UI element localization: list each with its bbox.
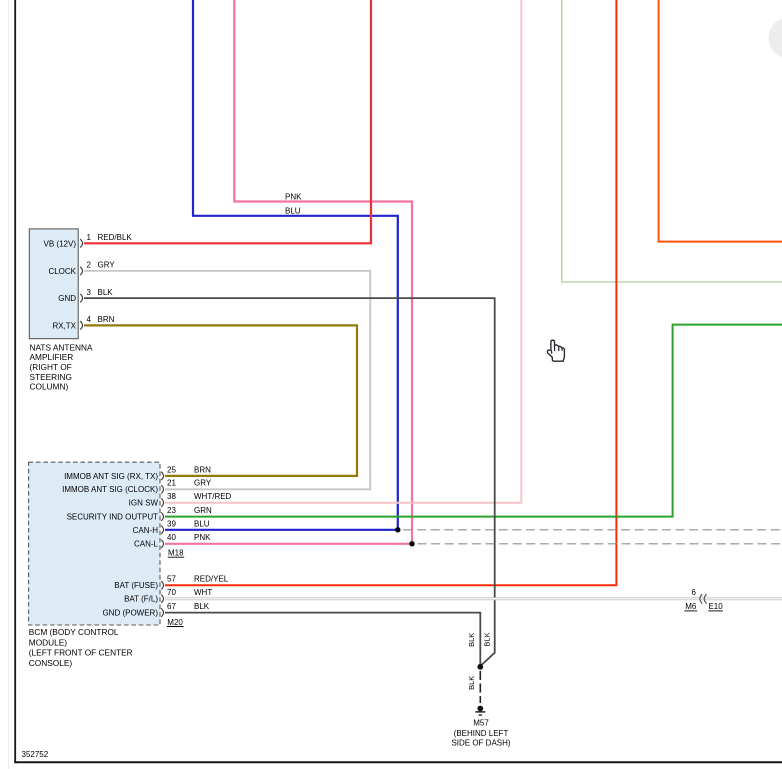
junction CAN-H [395, 527, 400, 532]
inline connector M6/E10 arcs [700, 594, 707, 603]
svg-text:STEERING: STEERING [30, 372, 72, 382]
node M20 [167, 618, 184, 627]
svg-text:WHT/RED: WHT/RED [194, 492, 232, 501]
svg-text:57: 57 [167, 575, 176, 584]
wire RED/YEL vertical [165, 0, 616, 585]
NATS pin 2 connector [80, 267, 82, 275]
svg-text:RED/BLK: RED/BLK [98, 233, 133, 242]
junction ground splice [477, 664, 483, 670]
svg-text:BRN: BRN [194, 465, 211, 474]
BCM pin 67 connector [161, 608, 163, 616]
wire PNK CAN-L row [165, 543, 412, 545]
dashed lead to ground M57 [479, 671, 481, 703]
svg-text:NATS ANTENNA: NATS ANTENNA [30, 342, 93, 352]
BCM pin 23 connector [161, 512, 163, 520]
svg-text:RED/YEL: RED/YEL [194, 575, 229, 584]
svg-text:GRY: GRY [98, 261, 116, 270]
BCM pin labels [62, 472, 158, 618]
svg-text:1: 1 [87, 233, 92, 242]
svg-text:4: 4 [87, 315, 92, 324]
BCM pin 57 connector [161, 581, 163, 589]
mouse cursor hand [547, 340, 564, 361]
svg-text:38: 38 [167, 492, 176, 501]
wire BLK from NATS GND [84, 298, 495, 665]
svg-text:M57: M57 [473, 719, 489, 728]
svg-text:BLK: BLK [467, 676, 476, 690]
BCM pin 38 connector [161, 499, 163, 507]
svg-text:IMMOB ANT SIG (RX, TX): IMMOB ANT SIG (RX, TX) [64, 472, 158, 481]
svg-text:BAT (FUSE): BAT (FUSE) [114, 581, 158, 590]
page number 352752 [22, 750, 49, 759]
connector pin 6 label [691, 588, 696, 597]
svg-text:2: 2 [87, 261, 92, 270]
svg-text:SIDE OF DASH): SIDE OF DASH) [451, 739, 510, 748]
NATS pin labels [44, 239, 77, 330]
wire BLU vertical/horizontal from top to CAN-H junction [193, 0, 398, 530]
node M18 [168, 549, 185, 558]
wire GRN security indicator [165, 325, 782, 517]
svg-text:BLK: BLK [467, 633, 476, 647]
wire ORANGE [659, 0, 782, 242]
BCM pin 70 connector [161, 595, 163, 603]
svg-text:M20: M20 [167, 618, 183, 627]
label BLK rotated lower [467, 676, 476, 690]
frame bottom border [14, 761, 782, 763]
svg-text:39: 39 [167, 519, 176, 528]
svg-text:SECURITY IND OUTPUT: SECURITY IND OUTPUT [67, 513, 159, 522]
svg-text:CONSOLE): CONSOLE) [29, 658, 73, 668]
svg-text:GRN: GRN [194, 506, 212, 515]
svg-text:BLK: BLK [98, 288, 114, 297]
svg-text:(BEHIND LEFT: (BEHIND LEFT [454, 729, 509, 738]
svg-text:BLU: BLU [194, 519, 210, 528]
svg-text:CAN-L: CAN-L [134, 540, 159, 549]
svg-text:E10: E10 [708, 602, 723, 611]
svg-text:(LEFT FRONT OF CENTER: (LEFT FRONT OF CENTER [29, 648, 133, 658]
BCM pin 39 connector [161, 526, 163, 534]
NATS caption [30, 342, 93, 391]
BCM pin 40 connector [161, 540, 163, 548]
svg-text:WHT: WHT [194, 588, 212, 597]
label BLK rotated left [467, 633, 476, 647]
BCM pin numbers [167, 465, 176, 611]
wire WHT row with connector [165, 597, 782, 600]
dashed CAN-H bus line [404, 529, 782, 531]
NATS box [29, 229, 78, 339]
wire BLU CAN-H row [165, 529, 398, 531]
connector E10 label [708, 602, 723, 611]
wire BLK from BCM GND(POWER) [165, 613, 480, 667]
svg-text:352752: 352752 [22, 750, 49, 759]
svg-text:BAT (F/L): BAT (F/L) [124, 595, 158, 604]
connector M6 label [684, 602, 697, 611]
wire RED/BLK vertical to top [84, 0, 371, 243]
svg-text:BLK: BLK [194, 602, 210, 611]
BCM pin 25 connector [161, 472, 163, 480]
svg-text:CAN-H: CAN-H [133, 526, 159, 535]
svg-text:GRY: GRY [194, 479, 212, 488]
BCM wire color labels [194, 465, 232, 611]
frame left border [14, 0, 16, 763]
svg-text:CLOCK: CLOCK [48, 267, 76, 276]
wire GRY clock [84, 271, 370, 489]
faint window edge line [8, 0, 10, 769]
svg-text:M18: M18 [168, 549, 184, 558]
NATS pin 3 connector [80, 294, 82, 302]
svg-text:M6: M6 [685, 602, 697, 611]
BCM caption [29, 627, 133, 668]
BCM pin 21 connector [161, 485, 163, 493]
svg-text:PNK: PNK [194, 533, 211, 542]
svg-text:MODULE): MODULE) [29, 637, 67, 647]
svg-text:AMPLIFIER: AMPLIFIER [30, 352, 74, 362]
svg-text:RX,TX: RX,TX [52, 321, 76, 330]
svg-text:COLUMN): COLUMN) [30, 382, 69, 392]
wire LT GRN [562, 0, 782, 282]
svg-text:BLU: BLU [285, 206, 301, 215]
svg-text:VB (12V): VB (12V) [44, 239, 77, 248]
label PNK [285, 193, 302, 202]
NATS pin 1 connector [80, 239, 82, 247]
ground M57 caption [451, 719, 510, 748]
wire PNK from top to CAN-L junction [234, 0, 412, 544]
svg-text:25: 25 [167, 465, 176, 474]
label BLK rotated right [483, 632, 492, 646]
svg-text:PNK: PNK [285, 193, 302, 202]
svg-text:23: 23 [167, 506, 176, 515]
wire BRN rx tx [84, 325, 357, 476]
svg-text:BLK: BLK [483, 632, 492, 646]
svg-text:GND: GND [58, 294, 76, 303]
svg-text:67: 67 [167, 602, 176, 611]
svg-text:BCM (BODY CONTROL: BCM (BODY CONTROL [29, 627, 119, 637]
scroll knob circle top right [769, 18, 782, 59]
wire WHT/RED vertical light pink [165, 0, 521, 503]
NATS pin numbers [87, 233, 92, 324]
svg-text:BRN: BRN [98, 315, 115, 324]
svg-text:40: 40 [167, 533, 176, 542]
svg-text:IGN SW: IGN SW [129, 499, 159, 508]
NATS pin 4 connector [80, 321, 82, 329]
svg-text:21: 21 [167, 479, 176, 488]
svg-text:6: 6 [691, 588, 696, 597]
NATS wire color labels [98, 233, 133, 324]
svg-text:3: 3 [87, 288, 92, 297]
BCM box dashed [29, 462, 160, 625]
svg-text:IMMOB ANT SIG (CLOCK): IMMOB ANT SIG (CLOCK) [62, 485, 158, 494]
svg-text:(RIGHT OF: (RIGHT OF [30, 362, 72, 372]
svg-text:GND (POWER): GND (POWER) [102, 609, 158, 618]
junction CAN-L [409, 541, 414, 546]
label BLU [285, 206, 301, 215]
dashed CAN-L bus line [418, 543, 782, 545]
svg-text:70: 70 [167, 588, 176, 597]
ground symbol M57 [475, 706, 485, 715]
